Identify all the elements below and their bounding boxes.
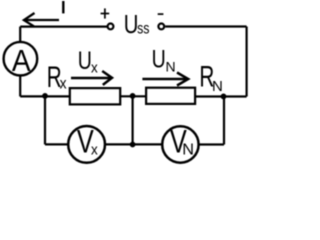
svg-text:N: N (212, 78, 223, 95)
svg-text:U: U (124, 9, 139, 38)
junction node C (between Rx and RN) (130, 93, 136, 99)
terminal node - (right) (158, 24, 164, 30)
svg-text:x: x (60, 76, 68, 93)
wire RN to right vertical (195, 95, 246, 97)
svg-text:ss: ss (137, 19, 149, 37)
label RN (199, 61, 214, 93)
current arrow I (24, 13, 59, 26)
label + (101, 8, 110, 18)
wire left vertical from top wire to ammeter (19, 27, 21, 43)
wire VN right horizontal (199, 143, 225, 145)
wire top-left horizontal (node + feed) (20, 26, 107, 28)
svg-text:U: U (152, 44, 166, 73)
svg-text:U: U (78, 46, 92, 75)
wire right vertical (246, 27, 248, 97)
label Rx (47, 61, 62, 93)
voltmeter letter V (VN) (170, 125, 187, 161)
resistor RN body (146, 88, 195, 104)
voltmeter Vx subscript x (91, 142, 98, 159)
label Rx subscript x (60, 76, 68, 93)
ammeter letter A (12, 44, 31, 78)
wire middle vertical (132, 96, 134, 145)
wire Rx to RN (120, 95, 146, 97)
junction node B (bottom middle) (130, 142, 136, 148)
resistor Rx body (70, 88, 120, 104)
wire left bus to Rx (20, 95, 70, 97)
voltmeter letter V (Vx) (77, 125, 94, 161)
label - (158, 13, 164, 15)
wire top-right horizontal (165, 25, 246, 27)
arrow Ux (71, 71, 112, 85)
voltmeter Vx circle (68, 126, 105, 163)
junction node D (right, to VN) (221, 94, 227, 100)
label Uss subscript ss (137, 19, 149, 37)
wire left vertical ammeter to bottom bus (19, 75, 21, 97)
label I (62, 1, 64, 13)
svg-text:x: x (91, 142, 98, 159)
junction node A (left, to Vx) (42, 93, 48, 99)
ammeter U1 (A) circle (4, 42, 38, 76)
svg-text:x: x (91, 60, 98, 77)
label RN subscript N (212, 78, 223, 95)
label Ux subscript x (91, 60, 98, 77)
terminal node + (left) (108, 24, 114, 30)
voltmeter VN subscript N (182, 142, 194, 159)
label UN (152, 44, 166, 73)
label UN subscript N (166, 58, 176, 74)
svg-text:N: N (182, 142, 194, 159)
label Uss (124, 9, 139, 38)
svg-text:N: N (166, 58, 176, 74)
wire Vx left vertical (44, 96, 46, 144)
label Ux (78, 46, 92, 75)
voltmeter VN circle (162, 126, 198, 162)
svg-text:A: A (12, 44, 31, 78)
wire between voltmeters (105, 143, 163, 145)
arrow UN (142, 73, 188, 86)
wire Vx left horizontal (45, 143, 69, 145)
wire VN right vertical (223, 96, 225, 144)
